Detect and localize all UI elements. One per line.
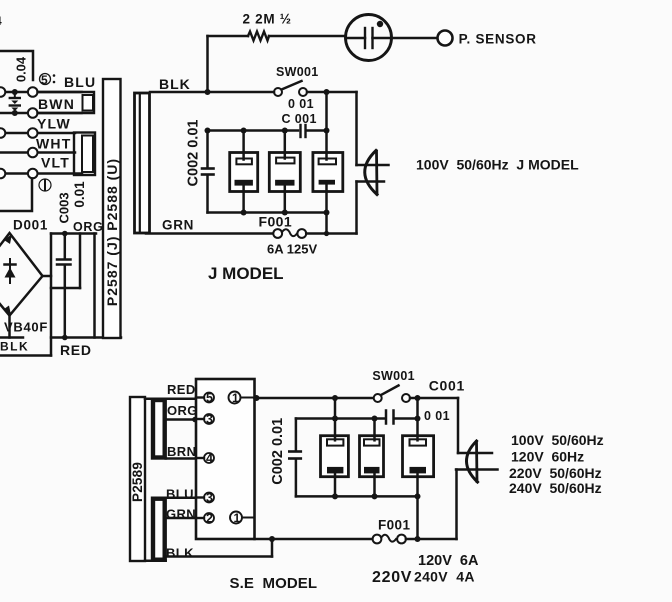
svg-text:ORG: ORG bbox=[167, 403, 198, 418]
svg-text:0.04: 0.04 bbox=[14, 56, 29, 82]
svg-text:240V 50/60Hz: 240V 50/60Hz bbox=[509, 480, 602, 496]
svg-text:3: 3 bbox=[206, 491, 214, 505]
svg-text:C002 0.01: C002 0.01 bbox=[270, 418, 286, 485]
svg-text:2 2M ½: 2 2M ½ bbox=[243, 12, 292, 27]
svg-text:BLK: BLK bbox=[0, 340, 29, 354]
svg-text:BWN: BWN bbox=[38, 96, 75, 112]
svg-text:D001: D001 bbox=[13, 218, 48, 233]
svg-text:RED: RED bbox=[167, 382, 196, 397]
svg-text:2: 2 bbox=[206, 512, 214, 526]
svg-text:0 01: 0 01 bbox=[424, 409, 450, 423]
svg-text:BLU: BLU bbox=[64, 74, 96, 90]
svg-text:C 001: C 001 bbox=[282, 112, 317, 126]
svg-text:P. SENSOR: P. SENSOR bbox=[459, 32, 537, 47]
svg-text:BLK: BLK bbox=[166, 546, 194, 561]
svg-text:3: 3 bbox=[206, 413, 214, 427]
svg-text:C003: C003 bbox=[57, 192, 72, 223]
svg-text:220V: 220V bbox=[372, 569, 412, 586]
svg-text:1: 1 bbox=[232, 391, 239, 405]
svg-text:100V 50/60Hz: 100V 50/60Hz bbox=[511, 432, 604, 448]
svg-text:RED: RED bbox=[60, 342, 92, 358]
svg-text:0.01: 0.01 bbox=[72, 181, 87, 208]
svg-text:ORG: ORG bbox=[73, 220, 104, 234]
svg-text:BLU: BLU bbox=[166, 487, 194, 502]
svg-text:WHT: WHT bbox=[36, 136, 71, 152]
svg-text:SW001: SW001 bbox=[276, 65, 319, 79]
svg-text:P2587 (J) P2588 (U): P2587 (J) P2588 (U) bbox=[104, 158, 120, 306]
svg-text:1: 1 bbox=[234, 511, 241, 525]
svg-text:GRN: GRN bbox=[162, 218, 194, 233]
svg-text:BRN: BRN bbox=[167, 444, 196, 459]
svg-text:SW001: SW001 bbox=[372, 369, 415, 383]
svg-text:J MODEL: J MODEL bbox=[208, 264, 284, 283]
svg-text:0 01: 0 01 bbox=[288, 97, 314, 111]
svg-text:VB40F: VB40F bbox=[4, 320, 48, 335]
svg-text:4: 4 bbox=[206, 452, 214, 466]
svg-text:5: 5 bbox=[206, 391, 214, 405]
svg-text:100V 50/60Hz J MODEL: 100V 50/60Hz J MODEL bbox=[416, 157, 579, 173]
svg-text:120V 6A: 120V 6A bbox=[418, 553, 479, 569]
svg-text:6A 125V: 6A 125V bbox=[267, 242, 317, 257]
svg-text:BLK: BLK bbox=[159, 76, 191, 92]
svg-text:P2589: P2589 bbox=[130, 462, 145, 502]
svg-text:5: 5 bbox=[41, 73, 48, 87]
svg-text:120V 60Hz: 120V 60Hz bbox=[511, 449, 584, 465]
svg-text:VLT: VLT bbox=[41, 155, 70, 171]
svg-text:S.E MODEL: S.E MODEL bbox=[230, 575, 318, 592]
svg-text:F001: F001 bbox=[259, 214, 293, 230]
svg-text:220V 50/60Hz: 220V 50/60Hz bbox=[509, 465, 602, 481]
svg-text:YLW: YLW bbox=[37, 116, 71, 132]
svg-text:GRN: GRN bbox=[166, 507, 196, 522]
svg-text:C002 0.01: C002 0.01 bbox=[186, 120, 202, 187]
svg-text:4: 4 bbox=[0, 14, 2, 28]
svg-text:240V 4A: 240V 4A bbox=[414, 569, 475, 585]
svg-text:C001: C001 bbox=[429, 378, 465, 394]
svg-text:F001: F001 bbox=[378, 518, 410, 533]
